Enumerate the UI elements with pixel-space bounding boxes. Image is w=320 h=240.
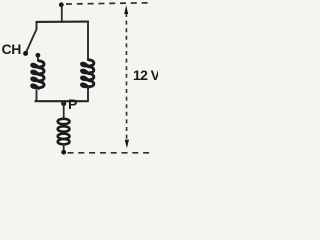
top chain line (supply rail reference) (66, 3, 151, 4)
wire bottom lead (63, 144, 65, 152)
inductor L3 bottom coil (58, 119, 70, 145)
node bottom junction (61, 150, 66, 155)
svg-text:12 V: 12 V (133, 67, 158, 83)
wire bottom rail (35, 100, 89, 102)
bottom chain line (ground reference) (68, 152, 151, 154)
inductor L1 left coil (32, 61, 44, 89)
node top junction (59, 2, 64, 7)
switch CH pivot dot (23, 51, 28, 56)
wire left corner drop (35, 21, 37, 30)
inductor L2 right coil (82, 60, 94, 88)
wire contact stub (37, 55, 39, 61)
svg-text:CH: CH (2, 41, 22, 57)
switch fixed contact dot (36, 53, 41, 58)
node P junction dot (61, 101, 66, 106)
dimension arrow down (125, 140, 129, 149)
wire left coil to bottom rail (36, 90, 38, 102)
wire top rail (36, 21, 89, 23)
wire right coil to bottom rail (87, 87, 89, 102)
dimension arrow up (124, 5, 128, 14)
wire right corner drop (87, 21, 89, 60)
wire P stub down (63, 101, 65, 118)
wire top stub (61, 5, 63, 23)
svg-text:P: P (68, 96, 77, 112)
switch CH blade (open) (26, 29, 36, 52)
dimension line 12V dashed shaft (125, 13, 127, 141)
